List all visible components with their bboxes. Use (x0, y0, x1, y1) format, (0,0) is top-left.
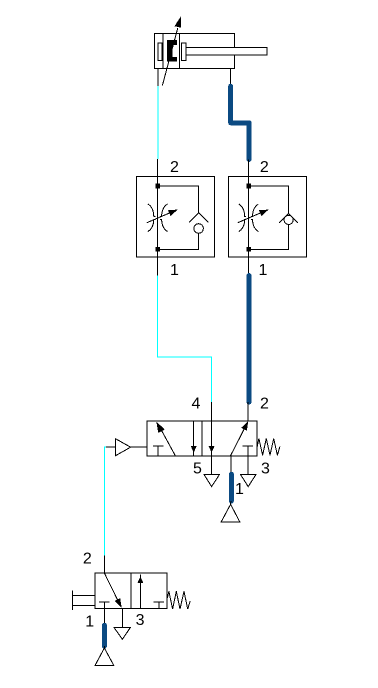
manual actuator (73, 591, 96, 610)
svg-text:1: 1 (258, 262, 267, 279)
right chamber port3 blocked (242, 446, 253, 456)
cylinder (155, 33, 268, 86)
right chamber port3 blocked (154, 602, 164, 608)
svg-text:3: 3 (136, 612, 145, 629)
port stubs (104, 556, 122, 628)
flow control valve V2 (229, 159, 307, 279)
wire V2 port1 to 5/2 valve port2 (blue, pressurized) (247, 276, 252, 402)
svg-text:1: 1 (235, 481, 244, 498)
adjustable cushioning arrow (162, 16, 181, 85)
right chamber path 1-2 arrow (230, 429, 244, 456)
right chamber path 4-5 (211, 421, 213, 456)
return spring (167, 591, 190, 609)
node V2 bottom (246, 247, 251, 252)
node V2 top (246, 184, 251, 189)
wire 3/2 port1 to supply (blue, pressurized) (102, 625, 107, 646)
throttle arrow V1 (147, 213, 171, 223)
wire cylinder-left to V1 port2 (cyan) (157, 86, 159, 159)
left chamber path 2-3 (193, 421, 195, 456)
exhaust port5 (204, 474, 220, 486)
check valve branch V2 (249, 186, 289, 213)
left chamber port1 blocked (99, 602, 109, 608)
return spring (257, 439, 280, 456)
port stubs (212, 402, 249, 475)
svg-text:2: 2 (170, 159, 179, 176)
compressed air supply under 5/2 valve (221, 501, 240, 522)
throttle arcs V1 (148, 204, 168, 232)
exhaust port3 (240, 474, 256, 486)
svg-text:2: 2 (260, 396, 269, 413)
wire 5/2 port1 to supply (blue, pressurized) (229, 474, 234, 501)
wire 3/2 port2 to 5/2 pilot (cyan) (104, 447, 106, 556)
check valve branch V1 (158, 186, 199, 213)
svg-text:3: 3 (261, 461, 270, 478)
right chamber path 1-2 (139, 575, 141, 609)
node V1 bottom (155, 247, 160, 252)
svg-text:2: 2 (260, 159, 269, 176)
flow control valve V1 (137, 159, 215, 279)
throttle arrow V2 (238, 213, 262, 223)
3/2-way valve (73, 551, 191, 640)
svg-text:2: 2 (83, 551, 92, 568)
svg-text:1: 1 (170, 262, 179, 279)
throttle arcs V2 (239, 204, 259, 232)
left chamber path 2-3 arrow (104, 573, 117, 600)
left chamber port5 blocked (153, 446, 163, 456)
svg-text:1: 1 (85, 614, 94, 631)
wire V1 port1 to 5/2 valve port4 (cyan) (158, 276, 212, 402)
left chamber path 1-4 arrow (161, 429, 176, 456)
pilot actuator (104, 446, 115, 448)
5/2-way valve (104, 396, 280, 499)
wire cylinder-right to V2 port2 (blue, pressurized) (231, 86, 249, 159)
compressed air supply under 3/2 valve (95, 646, 114, 665)
svg-text:4: 4 (192, 396, 201, 413)
node V1 top (155, 184, 160, 189)
svg-text:5: 5 (193, 461, 202, 478)
exhaust port3 (114, 627, 131, 639)
